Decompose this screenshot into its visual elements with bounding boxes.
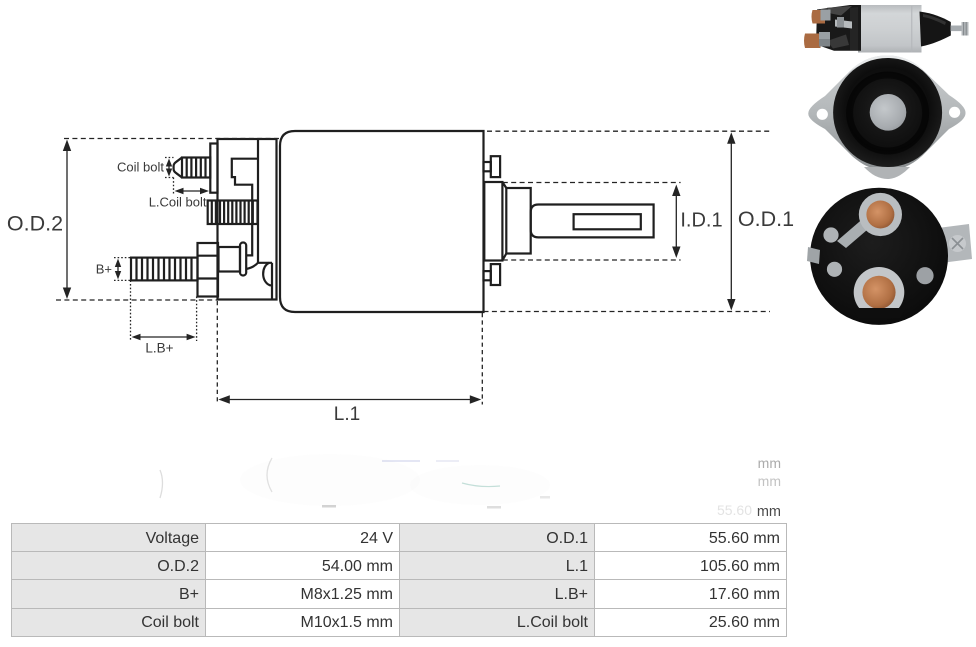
photo1 cylinder left seam xyxy=(858,5,860,53)
photo2 center hub xyxy=(870,94,907,131)
L.B+ right dotted drop xyxy=(196,297,198,342)
nut facet lines xyxy=(198,256,219,279)
L.1 left dashed line xyxy=(216,301,218,405)
L.Coil bolt arrow xyxy=(178,190,207,192)
svg-text:mm: mm xyxy=(758,455,781,471)
photo 3: front contact view xyxy=(807,188,972,325)
B+ bolt thread body xyxy=(131,258,198,281)
photo2 flange bottom shadow xyxy=(864,167,910,179)
O.D.2 arrowheads xyxy=(63,140,71,152)
photo3 black body xyxy=(810,188,948,325)
svg-text:B+: B+ xyxy=(96,262,112,277)
ghost speck 3 xyxy=(540,496,550,499)
photo1 silver nut upper xyxy=(821,10,831,21)
svg-text:Coil bolt: Coil bolt xyxy=(117,160,164,175)
coil bolt thread body xyxy=(182,158,210,178)
I.D.1 bottom dashed line xyxy=(503,259,681,261)
right face bolt top head xyxy=(491,156,500,177)
B+ size arrow xyxy=(117,262,119,277)
ghost speck 2 xyxy=(487,506,501,509)
O.D.1 arrow line xyxy=(730,136,732,307)
collar ring 1 xyxy=(484,182,502,261)
svg-text:L.Coil bolt: L.Coil bolt xyxy=(149,195,207,210)
photo1 silver nut lower xyxy=(819,32,830,47)
photo1 rod tip xyxy=(962,22,969,36)
L.B+ arrowheads xyxy=(132,334,141,341)
photo1 metal rod xyxy=(951,26,964,32)
B+ bolt threads xyxy=(137,258,192,281)
photo1 cap lower highlight xyxy=(827,35,849,49)
photo3 bottom terminal ring xyxy=(854,267,905,318)
photo 2: rear flange view xyxy=(808,56,965,180)
B+ dotted box xyxy=(114,258,131,281)
photo3 bracket screw xyxy=(949,235,966,252)
O.D.1 arrowheads xyxy=(727,132,735,144)
plunger pill flange xyxy=(240,243,246,276)
L.B+ arrow xyxy=(135,336,192,338)
contact fillet curve xyxy=(246,263,272,269)
photo3 left tab xyxy=(807,247,820,264)
L.1 arrowheads xyxy=(218,395,230,403)
photo3 hex bolt upper-left xyxy=(823,227,838,242)
photo3 top terminal ring xyxy=(859,193,902,236)
photo1 copper stud upper xyxy=(812,10,826,24)
svg-text:mm: mm xyxy=(758,473,781,489)
ghost curve 2 xyxy=(267,458,272,492)
photo1 nut lower shade xyxy=(819,39,830,47)
photo2 flange top highlight xyxy=(849,56,925,73)
bushing threads xyxy=(212,201,253,225)
photo3 top terminal copper xyxy=(866,201,894,229)
plunger rod xyxy=(531,205,654,238)
cap inner vertical wall xyxy=(257,139,259,263)
plunger cylinder xyxy=(219,247,241,272)
threaded bushing L.Coil bolt xyxy=(208,201,258,225)
cap inner step profile xyxy=(232,159,258,256)
coil bolt dotted box xyxy=(165,158,174,178)
photo2 ear hole left xyxy=(817,109,828,120)
photo1 rod tip ribs xyxy=(964,22,967,36)
contact right wall xyxy=(271,263,273,300)
collar chamfer top xyxy=(502,182,506,188)
O.D.1 bottom dashed line xyxy=(484,311,771,313)
L.B+ left dotted drop xyxy=(130,280,132,341)
photo1 copper stud lower xyxy=(804,34,821,49)
photo1 gray cylinder xyxy=(858,5,922,53)
photo3 bottom terminal copper xyxy=(862,276,895,309)
O.D.1 top dashed line xyxy=(487,130,770,132)
arrow heads xyxy=(63,132,736,404)
ghost remnants above table xyxy=(160,454,781,520)
svg-text:L.B+: L.B+ xyxy=(145,341,173,356)
photo1 cap mid shade xyxy=(850,7,858,50)
ghost smudge 2 xyxy=(410,465,550,505)
svg-text:55.60: 55.60 xyxy=(717,502,752,518)
svg-text:O.D.2: O.D.2 xyxy=(7,212,63,236)
B+ hex nut xyxy=(198,243,219,297)
photo2 dome inner ring xyxy=(850,75,926,151)
ghost speck 1 xyxy=(322,505,336,508)
svg-text:mm: mm xyxy=(757,504,781,520)
L.Coil bolt dotted drop xyxy=(173,178,175,196)
B+ size arrowheads xyxy=(115,259,121,267)
spec table xyxy=(11,523,787,637)
photo3 bracket screw slot xyxy=(952,238,963,249)
photo1 cap highlight xyxy=(827,6,852,16)
photo3 hex bolt right xyxy=(916,267,933,284)
photo2 black dome xyxy=(833,58,942,167)
right face bolt bottom head xyxy=(491,264,500,285)
coil bolt size arrow xyxy=(168,162,170,174)
photo1 middle bracket xyxy=(835,20,852,29)
O.D.2 bottom dashed line xyxy=(56,299,218,301)
collar ring 2 xyxy=(506,188,530,254)
right face bolt bottom stem xyxy=(484,271,491,280)
ghost blue dash 2 xyxy=(436,460,459,462)
coil bolt tip xyxy=(174,158,182,178)
collar chamfer bottom xyxy=(502,254,506,261)
dimension lines xyxy=(56,131,770,404)
plunger rod slot xyxy=(574,214,641,229)
svg-text:O.D.1: O.D.1 xyxy=(738,207,794,231)
ghost teal dash xyxy=(462,483,500,487)
solenoid main body xyxy=(280,131,484,312)
ghost smudge 1 xyxy=(240,454,420,506)
svg-text:I.D.1: I.D.1 xyxy=(680,210,722,232)
I.D.1 arrow line xyxy=(675,188,677,254)
ghost curve 1 xyxy=(160,470,163,498)
L.1 right dashed line xyxy=(481,313,483,405)
photo1 black cap xyxy=(816,5,861,51)
photo3 dark crossbar xyxy=(852,308,906,318)
coil bolt size arrowheads xyxy=(166,159,172,167)
photo 1: solenoid side view xyxy=(804,5,969,53)
svg-text:L.1: L.1 xyxy=(334,404,360,425)
L.1 arrow line xyxy=(222,399,478,401)
dimension labels xyxy=(7,160,794,426)
photo3 hex bolt lower-left xyxy=(827,262,842,277)
cap outline xyxy=(218,139,277,300)
photo3 contact strip xyxy=(837,216,874,248)
photo2 flange plate xyxy=(808,56,965,171)
photo1 black boot cone xyxy=(920,12,951,47)
contact half-disc xyxy=(263,263,272,286)
I.D.1 arrowheads xyxy=(672,185,680,197)
photo2 ear hole right xyxy=(949,107,960,118)
coil bolt threads xyxy=(187,158,206,178)
photo3 right bracket xyxy=(938,224,972,263)
I.D.1 top dashed line xyxy=(503,182,681,184)
photo1 middle screw xyxy=(837,17,844,28)
photo1 cylinder right seam xyxy=(911,6,912,52)
ghost blue dash 1 xyxy=(382,460,420,462)
flange plate xyxy=(210,144,217,193)
photo1 boot highlight xyxy=(923,14,946,25)
O.D.2 top dashed line xyxy=(64,138,281,140)
right face bolt top stem xyxy=(484,162,491,171)
L.Coil bolt arrowheads xyxy=(175,188,184,195)
O.D.2 arrow line xyxy=(66,143,68,296)
